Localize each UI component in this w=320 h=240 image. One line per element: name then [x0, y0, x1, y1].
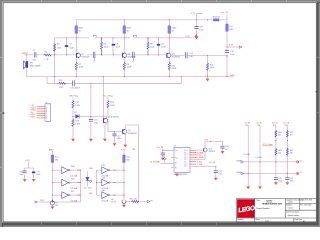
transistor Q2: [122, 53, 124, 57]
ground arrow C37: [32, 179, 36, 182]
wire input rail B right column: [97, 170, 102, 195]
wire ground rail: [27, 76, 234, 78]
output coupling capacitor C19: [171, 54, 227, 56]
ground arrow C36: [23, 179, 27, 182]
svg-text:LEGO: LEGO: [266, 200, 272, 202]
svg-text:10uF: 10uF: [116, 46, 121, 48]
inverter U4D: [102, 167, 109, 174]
svg-text:0: 0: [93, 62, 94, 64]
junction dot long vertical bottom: [138, 201, 139, 202]
svg-text:GND: GND: [230, 75, 235, 77]
svg-text:Q10: Q10: [209, 148, 213, 150]
svg-text:22R: 22R: [59, 87, 63, 89]
junction dots rail A: [52, 170, 53, 203]
title block divider logo/title: [254, 199, 256, 219]
svg-text:4.7V: 4.7V: [25, 160, 30, 162]
svg-text:100n: 100n: [218, 174, 222, 176]
wire Q3b emitter: [105, 123, 106, 139]
svg-text:P1.1: P1.1: [184, 152, 187, 154]
svg-text:P1.2: P1.2: [184, 155, 187, 157]
svg-text:100R: 100R: [172, 68, 177, 70]
svg-text:Vcc: Vcc: [175, 150, 178, 152]
resistor R31: [207, 55, 209, 76]
resistor R12 on lower rail: [59, 82, 66, 84]
wire A_SOUND: [161, 162, 174, 164]
svg-text:100k: 100k: [104, 46, 108, 48]
wire mic drop: [26, 55, 28, 77]
zone tick notches bottom band: [42, 223, 217, 225]
junction dot diode node: [72, 116, 73, 117]
transistor Q3: [166, 53, 168, 57]
svg-text:EMY-62M/P: EMY-62M/P: [30, 66, 41, 68]
resistor R28 column 3 lower: [275, 149, 277, 156]
resistor R5 stage1 bias on left leg: [53, 44, 55, 51]
svg-text:0: 0: [132, 62, 133, 64]
wire drop stage3 collector: [168, 20, 170, 77]
junction dot output/R31: [207, 55, 208, 56]
svg-text:100n: 100n: [230, 54, 234, 56]
wire U4C output: [70, 194, 80, 196]
wire Vcc_IN vertical: [226, 14, 228, 77]
svg-text:R25 2k2: R25 2k2: [130, 199, 137, 201]
ground arrow column 4: [286, 182, 290, 185]
svg-text:2N7002: 2N7002: [209, 151, 216, 153]
title block date/rev divider: [299, 199, 301, 211]
drop shadow right/bottom: [317, 2, 320, 227]
svg-text:1.96k: 1.96k: [75, 105, 80, 107]
resistor R29 column 4 lower: [286, 149, 288, 156]
capacitor C37 electrolytic: [32, 171, 36, 173]
junction dots stage3 base line: [147, 54, 159, 55]
capacitor C11 on lower rail: [73, 81, 75, 86]
svg-text:NC7S: NC7S: [111, 202, 117, 204]
IC right pin stubs: [190, 150, 196, 164]
wire main 4.7V rail: [76, 19, 227, 21]
power arrow up at stage3 rail end: [195, 37, 197, 39]
clamp symbol U6 at rail C bottom: [122, 201, 126, 204]
title block bottom row dividers: [254, 218, 256, 222]
svg-text:L7R: L7R: [45, 59, 49, 61]
wire column 3: [275, 125, 277, 182]
svg-text:DIGIB0: DIGIB0: [236, 160, 242, 162]
wire U4E output: [110, 182, 124, 184]
wire bottom output row: [126, 201, 147, 203]
junction dots output rail: [80, 170, 81, 196]
capacitor C29: [195, 27, 198, 29]
resistor R26 column 3: [275, 131, 277, 138]
svg-text:BC850W: BC850W: [81, 56, 89, 58]
svg-text:S0: S0: [150, 200, 152, 202]
wire Q10 top rail: [205, 141, 223, 147]
svg-text:TP6: TP6: [257, 125, 260, 127]
ground arrow Q3b emitter: [103, 139, 107, 142]
junction dots ground rail: [54, 76, 228, 77]
net tag DIGI1 left: [241, 172, 243, 174]
capacitor C39 column 4: [286, 178, 289, 180]
svg-text:P1.3: P1.3: [184, 157, 187, 159]
svg-text:C1: C1: [300, 172, 302, 174]
wire bottom-left row: [39, 201, 51, 203]
svg-text:82k: 82k: [278, 152, 281, 154]
svg-text:P1.5: P1.5: [184, 162, 187, 164]
svg-text:82k: 82k: [290, 152, 293, 154]
svg-text:B504 1k: B504 1k: [213, 17, 220, 19]
title block row line above bottom row: [236, 217, 316, 219]
capacitor C38 column 3: [274, 178, 277, 180]
svg-text:100n: 100n: [94, 122, 98, 124]
net tag C stage3: [133, 35, 136, 37]
svg-text:100R: 100R: [79, 67, 84, 69]
wire filter tee: [25, 162, 34, 179]
svg-text:DIGIB1: DIGIB1: [236, 172, 242, 174]
svg-text:1 of 1: 1 of 1: [265, 220, 269, 222]
wire U4B output: [70, 182, 80, 184]
svg-text:L2R_Plug: L2R_Plug: [69, 96, 79, 98]
junction dots stage2 base line: [66, 54, 114, 55]
svg-text:10uF: 10uF: [69, 47, 74, 49]
junction dot Q10 rail: [210, 141, 211, 142]
zone tick notches right band: [317, 57, 319, 113]
svg-text:LVC04A: LVC04A: [101, 199, 108, 202]
junction dot 4.7V: [226, 46, 227, 47]
svg-text:4u7: 4u7: [225, 149, 228, 151]
wire Q3b base from ground rail: [102, 77, 104, 121]
title block divider title/right column: [284, 199, 286, 219]
ground arrow under C29: [196, 35, 198, 37]
svg-text:P1.7: P1.7: [184, 166, 187, 168]
wire U4D output: [110, 169, 124, 171]
junction dot C14 node: [114, 131, 115, 132]
capacitor C34: [215, 166, 217, 177]
svg-text:P1.4: P1.4: [184, 159, 187, 161]
IC U7 body: [174, 147, 190, 172]
svg-text:6: 6: [46, 118, 47, 120]
svg-text:4.7V: 4.7V: [185, 36, 190, 38]
junction dots on main rail: [124, 19, 208, 20]
wire drop stage1 collector: [75, 20, 77, 77]
wire Q4 collector to long vertical: [125, 125, 138, 202]
capacitor C32: [161, 153, 164, 155]
wire C13 branch: [90, 83, 92, 138]
ground arrow IC bottom: [176, 172, 178, 173]
transistor Q3b: [103, 119, 105, 123]
capacitor C14: [114, 132, 116, 143]
svg-text:4k7: 4k7: [290, 134, 293, 136]
ground arrow column 3: [274, 182, 278, 185]
LEGO logo: [237, 199, 256, 217]
junction dot signal/cap: [226, 55, 227, 56]
svg-text:C11 220uF: C11 220uF: [70, 88, 81, 90]
svg-text:C34: C34: [218, 171, 221, 173]
svg-text:1.96k: 1.96k: [75, 123, 80, 125]
connector J1 net labels: [31, 105, 36, 118]
wire column 1: [247, 125, 249, 186]
capacitor C33: [222, 141, 224, 151]
svg-text:P1.6: P1.6: [184, 164, 187, 166]
wire U4F output: [110, 194, 124, 196]
svg-text:PB2: PB2: [89, 193, 92, 195]
svg-text:100k: 100k: [57, 47, 61, 49]
junction dots IC pins: [195, 152, 196, 158]
ground arrow rail C: [123, 203, 125, 205]
ferrite bead B2: [123, 26, 125, 34]
capacitor C13: [89, 119, 92, 121]
wire column 4: [286, 125, 288, 182]
wire drop stage2 collector: [123, 20, 125, 77]
title block outer frame: [236, 199, 316, 223]
svg-text:A4: A4: [303, 220, 305, 223]
capacitor C1 input: [34, 53, 36, 58]
junction dots local rails: [66, 37, 170, 38]
capacitor C8 stage2 electrolytic: [112, 38, 114, 55]
ground arrow R18: [71, 139, 75, 142]
inverter U4E: [102, 179, 109, 186]
resistor R7 stage1 emitter: [75, 62, 77, 69]
zone tick notches left band: [0, 57, 2, 167]
transistor Q10: [203, 148, 205, 151]
ferrite bead B3: [168, 26, 170, 34]
svg-text:100n: 100n: [19, 174, 23, 176]
wire IC pin2 stub: [171, 157, 174, 159]
net tag C stage2: [93, 35, 96, 37]
junction dot C34: [215, 166, 216, 167]
resistor R22 pull rail C: [123, 151, 125, 200]
resistor L31 vertical box: [226, 24, 228, 31]
resistor R20: [107, 98, 109, 132]
net labels right column inputs: [89, 168, 92, 195]
wire Q4 emitter: [124, 134, 126, 145]
svg-text:Rev: 27/07 2006: Rev: 27/07 2006: [300, 205, 311, 207]
resistor R25 bottom row: [132, 200, 139, 202]
svg-text:Vcc_IN: Vcc_IN: [209, 162, 216, 164]
wire lower feedback rail: [47, 77, 181, 84]
wire DIGI0 row: [244, 161, 296, 163]
svg-text:DIGI1: DIGI1: [31, 117, 36, 119]
wire IC row to C34: [190, 165, 216, 167]
resistor R27 column 4: [286, 131, 288, 138]
zone marker right: [316, 91, 318, 92]
resistor R10 stage3 emitter: [168, 62, 170, 69]
svg-text:100p: 100p: [278, 180, 282, 182]
svg-text:4.7V: 4.7V: [49, 150, 54, 152]
net tag 0 below C2: [93, 58, 95, 60]
connector J1 body: [45, 104, 51, 122]
ferrite bead B1: [75, 26, 77, 34]
junction dots rail B: [96, 182, 97, 183]
svg-text:4.7V: 4.7V: [121, 150, 126, 152]
svg-text:1k: 1k: [79, 31, 81, 33]
wire output rail left column: [53, 170, 81, 202]
svg-text:R_DATA: R_DATA: [197, 156, 205, 159]
test point TP1: [164, 160, 166, 163]
svg-text:100k: 100k: [150, 46, 154, 48]
ground arrow C14: [113, 143, 117, 146]
inverter U4F: [102, 192, 109, 199]
svg-text:P1.0: P1.0: [184, 150, 187, 152]
coupling capacitor C3 stage2-stage3: [128, 54, 167, 56]
transistor Q1: [76, 53, 78, 57]
svg-text:S_DIGI1: S_DIGI1: [255, 157, 262, 159]
zone marker left middle: [2, 112, 4, 114]
svg-text:100k: 100k: [210, 67, 214, 69]
net tag DIGI0 left: [241, 161, 243, 163]
svg-text:4k7: 4k7: [278, 134, 281, 136]
svg-text:Schematic Name:: Schematic Name:: [286, 211, 300, 214]
svg-text:Number:: Number:: [286, 205, 293, 207]
svg-text:TP1: TP1: [162, 156, 165, 158]
svg-text:100R: 100R: [127, 67, 132, 69]
title block right column row lines: [285, 202, 316, 204]
wire DIGI1 row: [244, 173, 296, 175]
resistor R21 pull rail A: [52, 151, 54, 202]
svg-text:<Branch name>: <Branch name>: [287, 214, 299, 217]
svg-text:R24: R24: [40, 200, 43, 202]
IC right pin net labels: [197, 150, 205, 166]
svg-text:TP8: TP8: [284, 125, 287, 127]
net tag 0 below C3: [132, 58, 134, 60]
connector J1 pin wires: [37, 107, 45, 118]
ground arrow Q4 emitter: [123, 145, 127, 148]
junction dot lower rail: [90, 83, 91, 84]
svg-text:A_SOUND: A_SOUND: [150, 161, 160, 164]
ground arrow column 1: [246, 186, 250, 189]
wire IC pin4 stub: [171, 167, 174, 169]
transistor Q4: [122, 130, 124, 134]
svg-text:100n: 100n: [117, 138, 121, 140]
svg-text:P2.0: P2.0: [175, 157, 178, 159]
svg-text:FDN340P: FDN340P: [128, 133, 137, 135]
resistor R9 stage2 emitter: [123, 62, 125, 69]
svg-text:MINDSTORMS NXT: MINDSTORMS NXT: [262, 204, 283, 206]
ground arrow below rail: [207, 77, 209, 79]
capacitor C30: [225, 51, 228, 53]
microphone M1: [26, 61, 28, 68]
IC U7 inner pin names: [175, 150, 187, 169]
svg-text:LVC04A: LVC04A: [71, 175, 78, 178]
svg-text:TP7: TP7: [273, 125, 276, 127]
junction dot input / mic: [26, 54, 27, 55]
svg-text:1k: 1k: [172, 31, 174, 33]
ground arrow C32: [161, 158, 165, 161]
svg-text:Title:: Title:: [256, 199, 261, 202]
wire input line: [25, 54, 77, 56]
junction dot C13 node: [90, 116, 91, 117]
wire stage3 local rail: [134, 37, 194, 39]
svg-text:Page Size:: Page Size:: [295, 219, 303, 221]
svg-text:Vcc_Plug: Vcc_Plug: [104, 96, 114, 98]
wire stage1 local rail: [55, 38, 89, 83]
buffer U5 symbol bottom-left: [50, 201, 54, 205]
junction dots columns: [275, 140, 288, 141]
wire IC pin row to Q10: [190, 152, 205, 160]
junction dots DIGI0 row: [259, 161, 276, 162]
junction dots rail C: [123, 170, 124, 196]
port bubble DIGI0: [296, 161, 298, 163]
ground arrow C34: [214, 178, 218, 181]
ground arrow C33: [221, 151, 225, 154]
svg-text:10uF: 10uF: [161, 46, 166, 48]
diode D1: [76, 115, 80, 118]
title block texts: [237, 199, 312, 223]
resistor R8 stage3 bias: [147, 38, 149, 55]
junction dots DIGI1 row: [248, 173, 288, 174]
svg-text:BC850W: BC850W: [111, 116, 119, 118]
ground arrow C13: [89, 139, 93, 142]
resistor R18: [72, 126, 74, 138]
net labels column tops: [244, 122, 289, 126]
svg-text:C0: C0: [300, 161, 302, 163]
svg-text:1k: 1k: [127, 31, 129, 33]
svg-text:D5: D5: [84, 187, 86, 189]
wire U4A output: [70, 169, 80, 171]
svg-text:PB0: PB0: [89, 168, 92, 170]
svg-text:10R: 10R: [229, 29, 233, 31]
svg-text:PB1: PB1: [89, 181, 92, 183]
wire R20 to Q4 base: [108, 131, 123, 133]
coupling capacitor C2 stage1-stage2: [87, 54, 123, 56]
wire Vcc_IN pin: [163, 149, 174, 153]
LED D5: [87, 172, 89, 177]
inverter U4B: [62, 179, 69, 186]
wire diode to Q3b: [73, 116, 106, 118]
wire stage2 local rail: [95, 37, 130, 39]
svg-text:100p: 100p: [290, 180, 294, 182]
net tag arrow right bottom row: [147, 200, 149, 202]
svg-text:T_SDA: T_SDA: [197, 163, 204, 166]
wire rail A to inverter inputs: [53, 170, 62, 195]
inverter U4C: [62, 192, 69, 199]
junction dot Vcc pin: [162, 150, 163, 151]
resistor R17: [72, 98, 74, 119]
svg-text:C33: C33: [225, 146, 228, 148]
svg-text:4.7V: 4.7V: [229, 45, 234, 47]
inverter U4A: [62, 167, 69, 174]
svg-text:LVC04A: LVC04A: [71, 187, 78, 190]
resistor R6 stage2 bias: [100, 38, 102, 55]
wire column 2: [259, 125, 261, 186]
ground arrow column 2: [258, 186, 262, 189]
svg-text:S_DIGI0: S_DIGI0: [244, 154, 251, 156]
wire 4.7V_Clean stub: [196, 15, 198, 36]
port bubble DIGI1: [296, 172, 298, 174]
net tag bottom-left: [35, 201, 37, 203]
zone tick notches top band: [42, 0, 287, 2]
ferrite L30 on rail: [214, 19, 219, 21]
net 4.7V port arrow right: [227, 46, 239, 48]
svg-text:TP5: TP5: [245, 125, 248, 127]
ground arrow U5: [51, 205, 53, 206]
resistor R4 input series: [44, 54, 51, 56]
svg-text:Project Number:: Project Number:: [256, 207, 270, 210]
capacitor C7 stage1 electrolytic: [66, 38, 68, 55]
svg-text:BC850W: BC850W: [172, 56, 180, 58]
svg-text:100n: 100n: [199, 29, 203, 31]
capacitor C36: [23, 171, 26, 173]
capacitor C9 stage3 electrolytic: [158, 38, 160, 55]
